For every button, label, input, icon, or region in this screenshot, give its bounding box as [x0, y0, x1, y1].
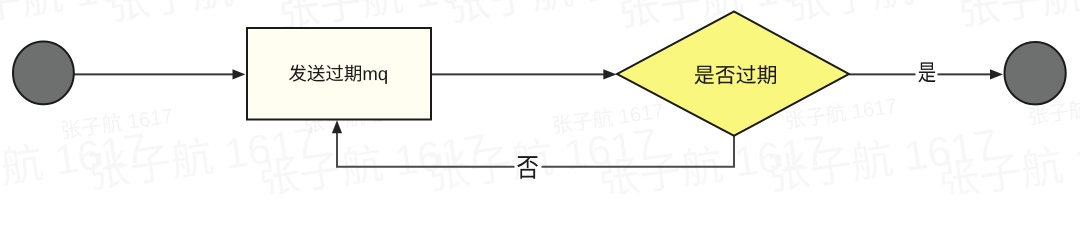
arrowhead into process box [233, 69, 246, 79]
start circle [13, 42, 74, 105]
wire: diamond to end circle (label 是) [849, 73, 916, 75]
arrowhead into end circle [990, 69, 1003, 79]
wire: process box to decision diamond [431, 73, 604, 75]
decision diamond 是否过期 [617, 12, 849, 136]
end circle [1005, 42, 1066, 104]
text 发送过期mq [289, 65, 387, 84]
watermark row large bottom [0, 121, 1080, 200]
arrowhead into diamond [603, 69, 616, 79]
wire: start circle to process box [75, 73, 234, 75]
watermark row small middle [61, 91, 1080, 139]
wire: loop back (diamond bottom to process bottom, label 否) [542, 136, 735, 167]
label 是 [918, 62, 935, 82]
text 是否过期 [695, 65, 776, 84]
process box 发送过期mq [247, 28, 431, 120]
arrowhead into process box bottom [332, 120, 342, 133]
watermark row large top [0, 0, 1080, 30]
label 否 [517, 156, 538, 179]
